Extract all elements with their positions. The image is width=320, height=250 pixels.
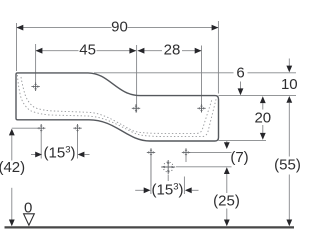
wire: extension below cross row1 right [77,132,79,159]
wire: extension below cross row2 left [150,156,152,186]
hidden dashed inner profile (inner curve) [21,77,212,133]
wire: drain centre line to the right (y=166.8) [176,166,232,168]
dimension (55): lower line and floor arrow [288,175,290,221]
svg-text:(153): (153) [152,181,184,198]
wire: hole row line to the right (y=152.4) [189,151,232,153]
svg-text:(25): (25) [213,193,240,210]
dimension (42): top arrow pointing up [9,129,15,136]
wire: short extension below drain [167,175,169,182]
dimension (25): lower stem and floor arrow [226,209,228,221]
svg-text:90: 90 [111,18,128,35]
dimension (15 3) bottom: right outside arrow [185,187,192,193]
dimension (15 3) bottom: extension lines [150,157,152,195]
svg-text:6: 6 [236,64,244,81]
floor line [5,226,295,228]
tap hole cross left [31,82,39,90]
svg-text:(7): (7) [230,149,248,166]
wire: line from (42) arrow to cross [12,127,37,129]
dimension (7): top outside arrow [226,141,228,143]
drain symbol: cross with ticks and dashed circle [161,160,175,174]
basin outline [16,73,219,141]
dimension 10: top outside arrow [288,59,290,67]
tap hole cross middle [132,104,140,112]
mounting hole cross row1 right [73,124,81,132]
svg-text:20: 20 [254,109,271,126]
mounting hole cross row2 left [147,148,155,156]
hidden dashed inner profile (outer curve) [18,75,217,137]
dimension 45 line [36,50,137,52]
datum triangle symbol [24,214,35,225]
dimension 20: bottom arrow [262,125,264,133]
wire: thin reference line C (basin bottom level) [219,140,267,142]
dimension 90 line [17,27,219,29]
dimension (42): lower stem and floor arrow [11,188,13,220]
wire: extension below cross row2 right [185,156,187,162]
wire: thin reference line A (rim top level) [94,72,296,74]
wire: shared extension line 45/28 [136,45,138,113]
svg-text:10: 10 [281,76,298,93]
svg-text:(42): (42) [0,159,25,176]
dimension (15 3) left: right outside arrow [78,152,85,158]
mounting hole cross row2 right [182,148,190,156]
dimension 20: top arrow [260,96,266,103]
dimension (15 3) bottom: left outside arrow [135,189,144,191]
svg-text:(55): (55) [274,157,300,174]
tap hole cross right [197,104,205,112]
mounting hole cross row1 left [37,124,45,132]
dimension (15 3) left: left outside arrow [31,154,36,156]
svg-text:45: 45 [79,42,96,59]
wire: extension below cross row1 left [40,132,42,159]
svg-text:(153): (153) [44,144,76,161]
wire: thin reference line B (shelf top level) [219,95,297,97]
svg-text:28: 28 [164,42,181,59]
wire: extension line left of 45 dim [35,44,37,91]
dimension (7)/(25) shared up arrow [224,167,230,174]
dimension 6: stem and arrow [240,82,242,90]
wire: extension line right of 28 dim [201,46,203,113]
dimension 28 line [138,50,202,52]
wire: extension line left of 90 dim [16,23,18,71]
wire: extension line right of 90 dim [217,21,219,94]
dimension 10: bottom outside arrow merging into (55) line [286,96,292,103]
